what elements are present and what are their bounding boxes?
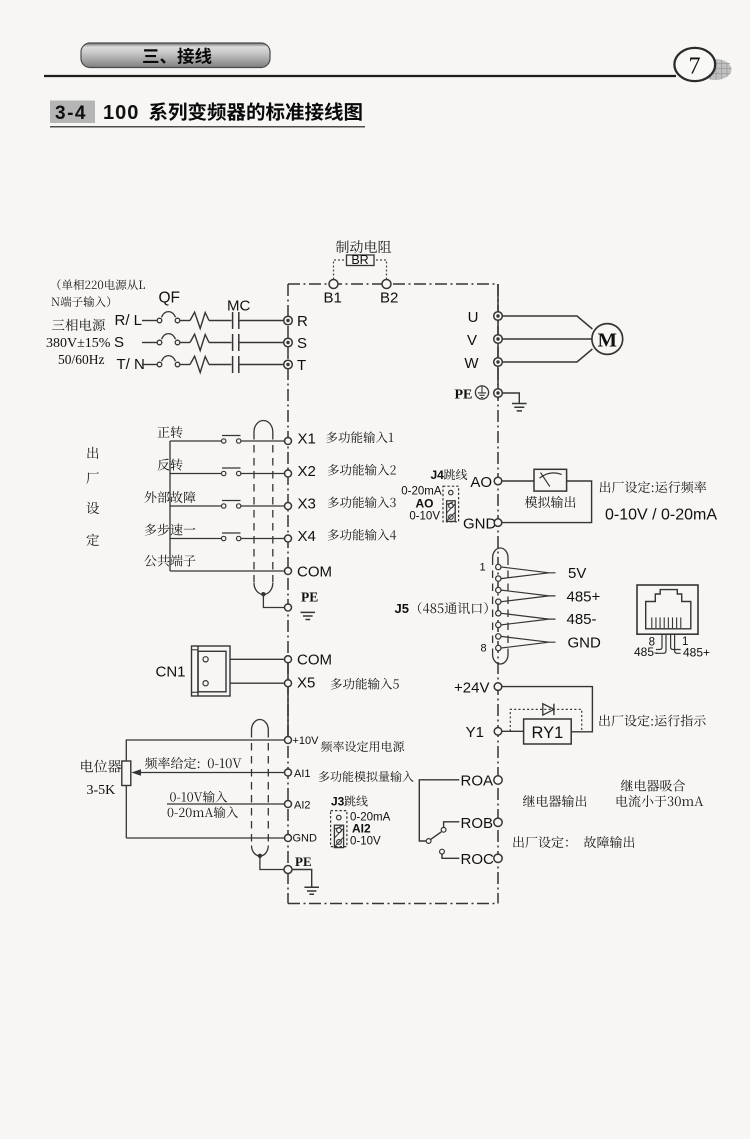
wire ROA common [419, 780, 459, 841]
label 0-10V输入 [170, 791, 227, 803]
svg-text:GND: GND [293, 833, 318, 845]
wire ROB [444, 822, 460, 828]
earth symbol in circle [475, 386, 488, 399]
jumper J3 label AI2 [352, 822, 371, 836]
wire X4 to terminal [241, 538, 284, 540]
svg-text:GND: GND [568, 634, 602, 651]
label 485+ [567, 588, 601, 605]
label 多功能模拟量输入 [319, 771, 414, 782]
label 0-10V / 0-20mA [605, 507, 717, 524]
svg-text:50/60Hz: 50/60Hz [58, 352, 105, 367]
jumper J4 block [443, 486, 459, 522]
label 多功能输入1 [326, 431, 393, 443]
section title text [103, 102, 362, 124]
wire CN1 to COM [230, 658, 284, 660]
jumper J3 label 0-20mA [350, 812, 391, 824]
label 出厂设定:运行频率 [600, 481, 707, 493]
svg-text:0-10V: 0-10V [409, 511, 440, 523]
page number shadow [700, 59, 732, 80]
RJ45 label 8 [649, 637, 655, 649]
label 继电器吸合 [621, 780, 685, 792]
terminal U [494, 312, 503, 321]
label J5 485通讯口 [395, 601, 488, 616]
jumper J3 label [331, 795, 368, 809]
svg-text:B1: B1 [324, 290, 342, 307]
svg-text:3-4: 3-4 [55, 103, 87, 124]
terminal AI1 [285, 768, 311, 780]
svg-text:ROA: ROA [461, 773, 494, 790]
svg-text:B2: B2 [380, 290, 398, 307]
svg-text:BR: BR [351, 253, 368, 267]
svg-text:AO: AO [470, 474, 492, 491]
svg-text:485+: 485+ [567, 588, 601, 605]
switch 多步速一 [222, 533, 241, 541]
wire AI2 [167, 803, 284, 805]
shield cable 1 [254, 421, 273, 597]
label MC [227, 298, 250, 315]
terminal B1 [324, 280, 342, 307]
wire W to motor [502, 349, 592, 362]
svg-text:MC: MC [227, 298, 250, 315]
wire meter loop to GND [502, 481, 592, 523]
label 380V±15% [46, 336, 111, 351]
terminal X1 [285, 431, 316, 448]
terminal GND right [494, 519, 502, 527]
label 频率设定用电源 [321, 741, 404, 752]
jumper J4 label 0-10V [409, 511, 440, 523]
terminal +24V [494, 683, 502, 691]
wire +24V to RY1 [502, 687, 593, 732]
terminal X4 [285, 528, 316, 545]
label 继电器输出 [523, 795, 587, 807]
svg-text:1: 1 [480, 562, 486, 574]
label 5V [568, 565, 586, 582]
resistor BR [347, 253, 375, 267]
svg-text:QF: QF [159, 290, 181, 307]
svg-text:0-10V / 0-20mA: 0-10V / 0-20mA [605, 507, 717, 524]
terminal R [284, 313, 308, 330]
terminal PE control [285, 604, 292, 611]
terminal ROB [494, 818, 502, 826]
relay common contact [426, 839, 431, 844]
svg-text:U: U [468, 309, 479, 326]
terminal COM [285, 563, 333, 580]
label 电位器 [81, 760, 121, 773]
jumper J3 label 0-10V [350, 836, 381, 848]
relay contact ROC [440, 849, 445, 854]
label CN1 [156, 664, 186, 681]
RJ45 label 485+ [683, 646, 710, 660]
breaker QF + contactor MC phase T wire [142, 356, 284, 373]
dotted link B1-BR [334, 260, 347, 279]
RJ45 label 485- [634, 645, 658, 659]
wire ROC [442, 854, 459, 858]
label 多步速一 [145, 524, 196, 536]
svg-text:485-: 485- [567, 611, 597, 628]
svg-text:J5: J5 [395, 601, 409, 616]
label 电流小于30mA [617, 795, 704, 807]
terminal PE [494, 389, 503, 398]
wire COM [170, 570, 284, 572]
breaker QF + contactor MC phase S wire [142, 334, 284, 351]
note 单相220电源 [51, 279, 145, 307]
label 公共端子 [144, 555, 195, 567]
terminal ROA [494, 776, 502, 784]
label 出厂设定:运行指示 [599, 715, 706, 727]
svg-text:ROB: ROB [461, 815, 494, 832]
wire U to motor [502, 316, 592, 329]
svg-text:S: S [114, 334, 124, 351]
RJ45 jack [637, 585, 698, 634]
terminal X5 [285, 674, 316, 691]
ground analog PE [292, 870, 319, 895]
wire X1 to terminal [241, 440, 284, 442]
label 0-20mA输入 [168, 806, 239, 818]
label 485- [567, 611, 597, 628]
svg-text:485-: 485- [634, 645, 658, 659]
label 外部故障 [145, 491, 196, 503]
terminal GND analog [285, 833, 318, 845]
motor M [592, 324, 623, 355]
label GND J5 [568, 634, 602, 651]
label 3-5K [87, 783, 116, 798]
svg-text:PE: PE [295, 854, 312, 869]
title underline [50, 126, 365, 128]
label V [467, 332, 477, 349]
terminal X2 [285, 463, 316, 480]
terminal Y1 [494, 728, 502, 736]
J5 fan-out wires [501, 567, 555, 648]
svg-text:R/ L: R/ L [115, 312, 143, 329]
phase label S [114, 334, 124, 351]
label 反转 [157, 459, 182, 471]
terminal +10V [285, 735, 320, 747]
svg-text:3-5K: 3-5K [87, 783, 116, 798]
wire V to motor [502, 338, 591, 340]
svg-text:J4: J4 [431, 468, 445, 482]
wire CN1 to X5 [230, 682, 284, 684]
frame solid segment right top [497, 284, 499, 399]
label 多功能输入3 [328, 496, 396, 508]
terminal PE analog [284, 866, 292, 874]
jumper J3 block [331, 811, 347, 848]
terminal AO [494, 477, 502, 485]
svg-text:5V: 5V [568, 565, 586, 582]
svg-text:GND: GND [463, 516, 497, 533]
wire GND analog [126, 837, 284, 839]
svg-text:7: 7 [689, 54, 701, 80]
svg-text:PE: PE [301, 590, 318, 605]
terminal W [494, 358, 503, 367]
diode [543, 704, 554, 715]
breaker QF + contactor MC phase R wire [142, 312, 284, 329]
dotted link B2-BR [374, 260, 387, 279]
ground after PE [502, 393, 526, 411]
svg-text:W: W [464, 355, 479, 372]
label 正转 [158, 426, 183, 438]
label ROC [461, 851, 495, 868]
svg-text:COM: COM [297, 563, 332, 580]
svg-text:X3: X3 [298, 496, 316, 513]
svg-text:R: R [297, 313, 308, 330]
label 三相电源 [52, 319, 105, 331]
svg-text:M: M [598, 330, 617, 352]
relay blade [431, 832, 442, 840]
header chapter pill 三、接线 [81, 43, 270, 68]
label ROA [461, 773, 494, 790]
svg-text:COM: COM [297, 651, 332, 668]
svg-text:ROC: ROC [461, 851, 495, 868]
RJ45 pin leaders [656, 635, 681, 654]
svg-text:Y1: Y1 [466, 724, 484, 741]
svg-text:J3: J3 [331, 795, 345, 809]
wire X2 left [170, 473, 221, 475]
svg-text:PE: PE [455, 388, 473, 403]
label 出厂设定 故障输出 [513, 836, 634, 848]
relay RY1 [524, 719, 572, 744]
terminal X3 [285, 496, 316, 513]
label PE [455, 388, 473, 403]
inverter boundary frame top [288, 283, 498, 285]
inverter boundary frame bottom [288, 903, 498, 905]
label W [464, 355, 479, 372]
wire X3 to terminal [241, 505, 284, 507]
label GND right [463, 516, 497, 533]
wire Y1 to RY1 [502, 730, 524, 732]
svg-text:AI1: AI1 [294, 768, 311, 780]
dotted diode loop [510, 709, 581, 731]
svg-text:S: S [297, 335, 307, 352]
vertical label 出厂设定 [86, 447, 99, 546]
shield cable J5 [493, 548, 508, 664]
svg-text:V: V [467, 332, 477, 349]
switch 正转 [222, 436, 241, 444]
label 制动电阻 [336, 240, 391, 253]
label Y1 [466, 724, 484, 741]
label 频率给定 0-10V [145, 757, 242, 769]
svg-text:+10V: +10V [293, 735, 320, 747]
RJ45 label 1 [682, 636, 688, 648]
shield drain wire to PE [263, 594, 284, 607]
label PE analog [295, 854, 312, 869]
page number ellipse 7 [674, 48, 715, 81]
phase label T/N [117, 356, 145, 373]
terminal AI2 [285, 800, 311, 812]
frame solid segment left COM-X5 [287, 655, 289, 740]
terminal COM 2 [285, 651, 333, 668]
label U [468, 309, 479, 326]
svg-text:+24V: +24V [454, 679, 489, 696]
svg-text:AI2: AI2 [294, 800, 311, 812]
svg-text:X1: X1 [298, 431, 316, 448]
svg-text:AI2: AI2 [352, 822, 371, 836]
svg-text:AO: AO [416, 497, 434, 511]
shield cable 2 [252, 720, 269, 859]
svg-text:RY1: RY1 [531, 724, 563, 742]
J5 pins 1-8 [480, 562, 501, 655]
meter 模拟输出 [534, 469, 567, 491]
svg-text:X4: X4 [298, 528, 316, 545]
ground control PE [301, 612, 316, 619]
jumper J4 label [431, 468, 468, 482]
wire AO to meter [502, 480, 534, 482]
wire X3 left [170, 505, 221, 507]
wire X1 left [170, 440, 221, 442]
jumper J4 label 0-20mA [401, 486, 442, 498]
label +24V [454, 679, 489, 696]
relay contact ROB [441, 827, 446, 832]
svg-text:0-10V: 0-10V [350, 836, 381, 848]
header horizontal rule [44, 75, 676, 77]
phase label R/L [115, 312, 143, 329]
svg-text:380V±15%: 380V±15% [46, 336, 111, 351]
terminal ROC [494, 854, 502, 862]
wire X2 to terminal [241, 473, 284, 475]
wire X4 left [170, 538, 221, 540]
switch 外部故障 [222, 501, 241, 509]
svg-text:T/ N: T/ N [117, 356, 145, 373]
svg-text:485+: 485+ [683, 646, 710, 660]
connector CN1 [192, 646, 231, 696]
svg-text:T: T [297, 357, 306, 374]
label 多功能输入4 [328, 529, 396, 541]
svg-text:100: 100 [103, 102, 139, 124]
label QF [159, 290, 181, 307]
svg-text:X2: X2 [298, 463, 316, 480]
inverter boundary frame right [497, 284, 499, 904]
svg-text:8: 8 [481, 643, 487, 655]
label PE control [301, 590, 318, 605]
label 多功能输入2 [328, 464, 396, 476]
wire AI1 with wiper arrow [131, 769, 284, 775]
label ROB [461, 815, 494, 832]
terminal S [284, 335, 307, 352]
label 50/60Hz [58, 352, 105, 367]
terminal B2 [380, 280, 398, 307]
label 模拟输出 [525, 496, 576, 508]
terminal T [284, 357, 306, 374]
factory-setting bus wire [169, 441, 171, 571]
label 多功能输入5 [331, 678, 399, 690]
terminal V [494, 335, 503, 344]
svg-text:CN1: CN1 [156, 664, 186, 681]
potentiometer 3-5K [122, 740, 285, 838]
svg-text:X5: X5 [297, 674, 315, 691]
shield drain wire to PE 2 [260, 856, 285, 870]
inverter boundary frame left [287, 284, 289, 904]
switch 反转 [222, 468, 241, 476]
jumper J4 label AO [416, 497, 434, 511]
section title 3-4 [50, 101, 95, 125]
label AO [470, 474, 492, 491]
